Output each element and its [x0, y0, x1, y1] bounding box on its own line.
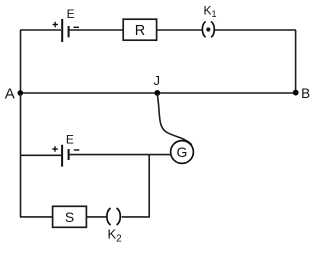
svg-text:K1: K1: [204, 4, 217, 20]
wire A to B potentiometer: [20, 92, 296, 94]
svg-text:G: G: [177, 144, 188, 160]
battery E1 minus sign: [74, 26, 80, 28]
svg-text:K2: K2: [108, 227, 123, 245]
wire top-left to battery + plate: [20, 29, 61, 31]
wire down to node B: [295, 30, 297, 93]
svg-text:E: E: [67, 7, 75, 21]
wire from node A up left side: [20, 30, 22, 93]
battery E2 long plate: [61, 145, 63, 167]
wire box S to key K2: [86, 216, 107, 218]
wire bottom-left to box S: [20, 216, 53, 218]
battery E1 short plate: [68, 26, 70, 37]
wire junction down to bottom loop: [148, 155, 150, 217]
svg-text:E: E: [66, 132, 74, 146]
galvanometer G: [171, 141, 194, 164]
node B: [293, 90, 299, 96]
battery E2 minus sign: [74, 149, 80, 151]
node J: [154, 90, 160, 96]
node A: [18, 90, 24, 96]
wire A down left side to bottom: [20, 93, 22, 217]
svg-text:J: J: [154, 73, 161, 88]
svg-text:A: A: [5, 86, 15, 103]
svg-text:B: B: [301, 86, 310, 101]
svg-text:S: S: [65, 209, 74, 225]
resistor R box: [123, 19, 156, 40]
key K1 plug dot: [206, 27, 210, 31]
wire key K2 to right riser: [122, 216, 150, 218]
wire battery to resistor R: [69, 29, 123, 31]
svg-text:R: R: [135, 23, 145, 39]
battery E1 long plate: [61, 19, 63, 42]
battery E2 plus sign: [52, 146, 58, 151]
wire battery E2 to galvanometer: [69, 154, 171, 156]
curved wire from jockey J to galvanometer: [157, 95, 192, 145]
wire resistor to key K1: [157, 29, 202, 31]
box S: [53, 206, 87, 227]
wire left to battery E2: [20, 154, 61, 156]
wire key K1 to top-right corner: [215, 29, 296, 31]
key K2 arcs: [107, 208, 120, 225]
battery E2 short plate: [68, 149, 70, 160]
battery E1 plus sign: [53, 22, 59, 27]
key K1 arcs: [202, 22, 214, 38]
